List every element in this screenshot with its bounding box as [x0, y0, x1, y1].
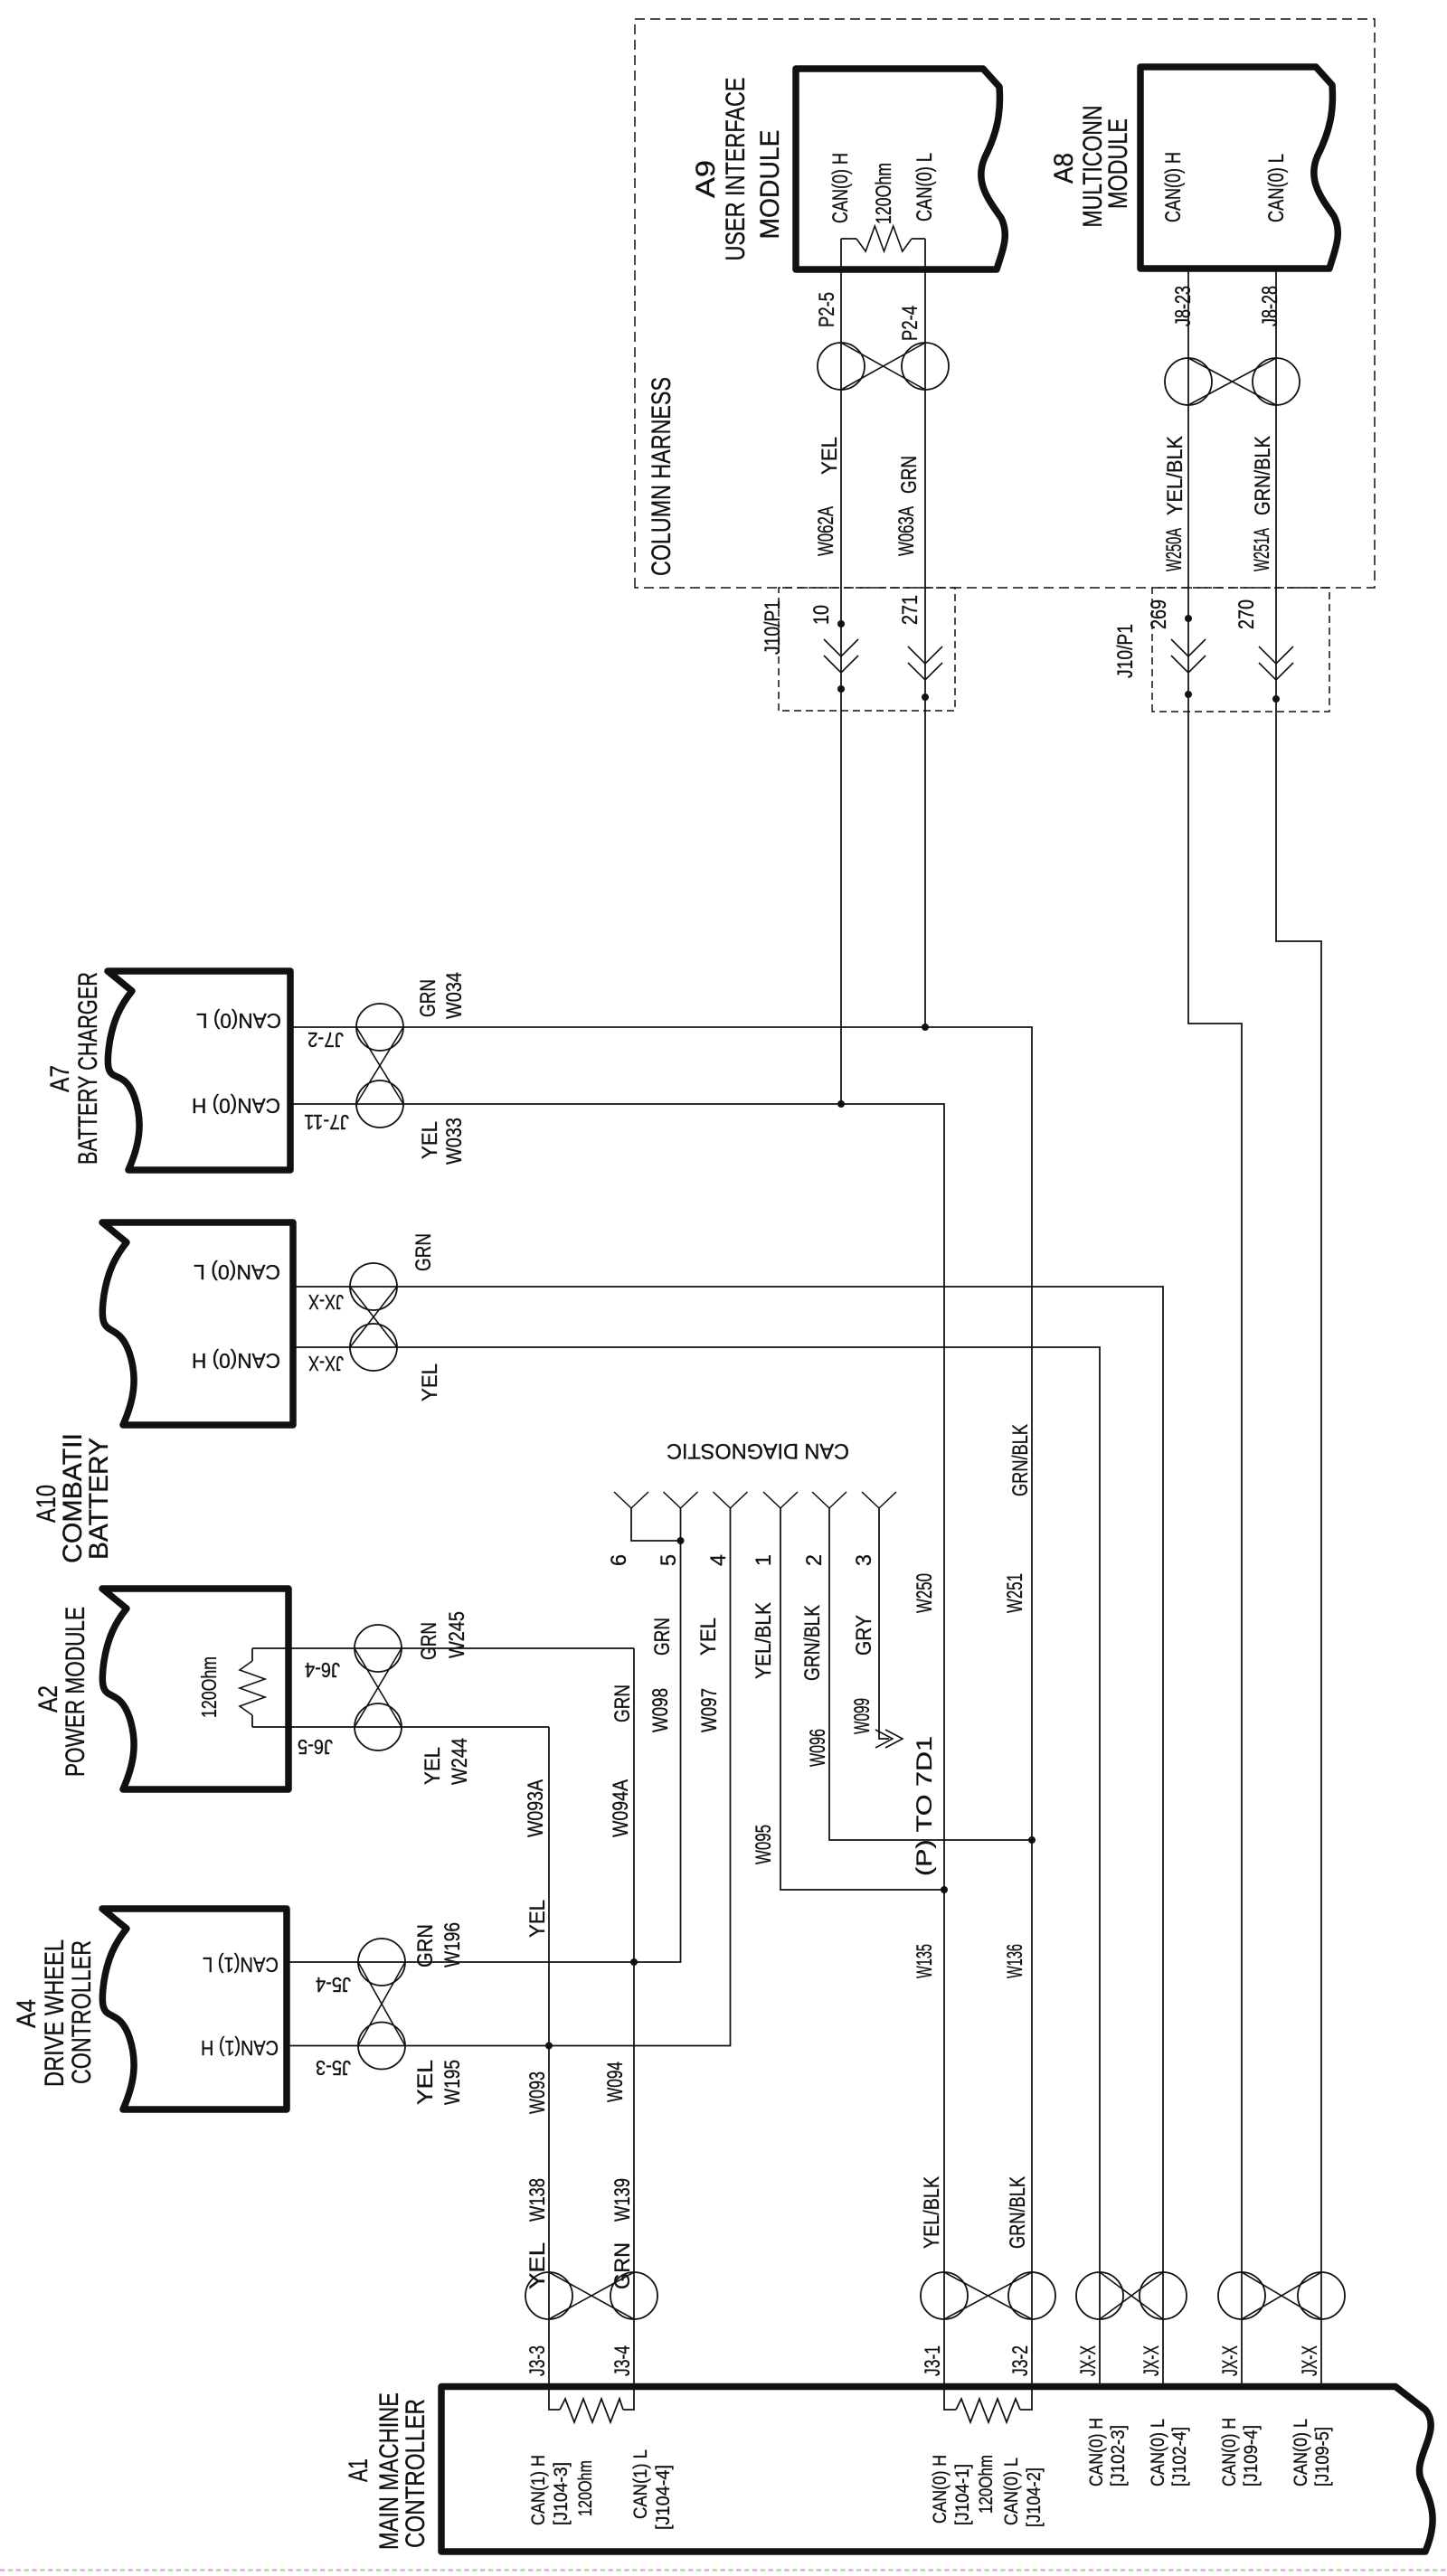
svg-text:[J102-4]: [J102-4]: [1169, 2427, 1190, 2486]
svg-text:A1: A1: [344, 2458, 374, 2482]
svg-text:J3-4: J3-4: [610, 2345, 635, 2376]
wire CAN DIAG pin1 W095 (YEL/BLK): [780, 1508, 944, 1890]
svg-text:BATTERY CHARGER: BATTERY CHARGER: [73, 972, 103, 1165]
svg-text:YEL: YEL: [418, 1121, 442, 1159]
junction dot W096 to bus J3-2: [1028, 1836, 1036, 1844]
svg-text:W251A: W251A: [1250, 528, 1274, 571]
wire CAN DIAG pin2 W096 (GRN/BLK): [829, 1508, 1032, 1840]
svg-text:CAN(0) H: CAN(0) H: [1161, 152, 1186, 222]
svg-text:W062A: W062A: [814, 506, 838, 556]
svg-text:CAN(0) L: CAN(0) L: [194, 1260, 280, 1284]
svg-text:GRN: GRN: [897, 456, 922, 494]
svg-text:GRY: GRY: [852, 1615, 876, 1656]
svg-text:W093: W093: [525, 2071, 550, 2114]
resistor 120Ohm inside A9: [841, 238, 856, 240]
svg-text:YEL: YEL: [818, 437, 842, 475]
wire A8 CAN(0) H W250A/W250 (YEL/BLK) to A1 J109-4: [1188, 269, 1242, 2387]
svg-text:269: 269: [1147, 599, 1171, 629]
svg-text:CAN(1) H: CAN(1) H: [528, 2455, 549, 2525]
svg-text:120Ohm: 120Ohm: [197, 1656, 221, 1718]
svg-text:CAN(0) L: CAN(0) L: [1148, 2419, 1168, 2486]
svg-text:W251: W251: [1003, 1573, 1027, 1613]
svg-text:CAN(0) H: CAN(0) H: [1086, 2418, 1107, 2486]
module A8 MULTICONN MODULE box: [1140, 67, 1338, 269]
svg-text:[J104-1]: [J104-1]: [952, 2464, 973, 2525]
junction dot wire 269 left: [1185, 691, 1192, 698]
junction dot wire 270 left: [1272, 695, 1280, 703]
svg-text:CAN(0) H: CAN(0) H: [930, 2455, 950, 2524]
svg-text:CAN(0) L: CAN(0) L: [1291, 2419, 1311, 2486]
svg-text:CAN(0) L: CAN(0) L: [1001, 2458, 1022, 2525]
twisted pair A9 P2-5/P2-4: [818, 343, 865, 390]
svg-text:[J104-4]: [J104-4]: [653, 2465, 674, 2530]
svg-text:[J109-4]: [J109-4]: [1241, 2425, 1262, 2486]
module A2 POWER MODULE box: [102, 1589, 288, 1789]
svg-text:W093A: W093A: [524, 1779, 548, 1837]
harness boundary COLUMN HARNESS dashed box: [635, 19, 1375, 588]
svg-text:YEL/BLK: YEL/BLK: [1163, 436, 1187, 515]
svg-text:10: 10: [809, 605, 834, 625]
svg-text:[J104-3]: [J104-3]: [551, 2462, 572, 2525]
connector J10/P1 dashed box (A9 wires): [779, 588, 955, 711]
svg-text:W098: W098: [648, 1688, 673, 1732]
junction dot pin6 to pin5 wire: [677, 1537, 685, 1544]
svg-text:JX-X: JX-X: [1076, 2345, 1101, 2376]
sheet border dashed line (pink/green): [0, 2569, 1447, 2571]
connector arrow J10/P1 wire 270: [1259, 663, 1293, 680]
svg-text:YEL: YEL: [418, 1363, 442, 1401]
svg-text:CAN(0) H: CAN(0) H: [192, 1349, 280, 1373]
twisted pair A1 J109-4/J109-5: [1218, 2272, 1265, 2319]
svg-text:W099: W099: [850, 1698, 875, 1734]
connector J10/P1 dashed box (A8 wires): [1152, 588, 1329, 712]
wire net CAN(0)L: A1 J3-2 bus to A7 J7-2 (GRN/BLK W251/W136): [290, 1027, 1032, 2387]
junction dot A4 J5-4 x bus J3-4: [630, 1958, 638, 1966]
connector CAN DIAGNOSTIC pin 3 fork: [862, 1492, 879, 1508]
svg-text:CAN(0) L: CAN(0) L: [913, 153, 937, 222]
svg-text:MODULE: MODULE: [1103, 118, 1133, 209]
svg-text:W096: W096: [806, 1729, 830, 1767]
wire A10 CAN(0) H to A1 J102-3 bus: [293, 1347, 1100, 2387]
wire A4 J5-3 drop to CAN DIAG pin4 (YEL W195/W097): [287, 1508, 731, 2046]
connector CAN DIAGNOSTIC pin 1 fork: [763, 1492, 780, 1508]
wire A4 J5-4 drop to CAN DIAG pin5 (GRN W196/W098): [287, 1508, 681, 1962]
svg-text:J10/P1: J10/P1: [1113, 624, 1138, 678]
svg-text:120Ohm: 120Ohm: [976, 2455, 997, 2514]
svg-text:CAN(0) L: CAN(0) L: [196, 1009, 281, 1033]
svg-text:A4: A4: [12, 1999, 42, 2028]
svg-text:120Ohm: 120Ohm: [575, 2460, 596, 2516]
svg-text:GRN: GRN: [610, 1684, 635, 1722]
svg-text:GRN/BLK: GRN/BLK: [1251, 436, 1275, 515]
junction dot A9 W062A to A7 drop: [837, 1100, 845, 1108]
svg-text:J5-3: J5-3: [316, 2056, 351, 2080]
junction dot A4 J5-3 x bus J3-3: [545, 2043, 553, 2050]
twisted pair A1 J3-1/J3-2: [921, 2272, 968, 2319]
twisted pair A10: [350, 1324, 397, 1371]
svg-text:CAN(1) L: CAN(1) L: [203, 1953, 279, 1977]
svg-text:JX-X: JX-X: [308, 1290, 344, 1314]
svg-text:W250: W250: [913, 1573, 937, 1613]
svg-text:W136: W136: [1003, 1944, 1027, 1978]
svg-text:J10/P1: J10/P1: [761, 600, 785, 655]
svg-text:[J102-3]: [J102-3]: [1108, 2425, 1129, 2486]
svg-text:W250A: W250A: [1162, 528, 1187, 571]
svg-text:J6-5: J6-5: [298, 1735, 333, 1759]
module A1 MAIN MACHINE CONTROLLER box: [441, 2387, 1433, 2552]
svg-text:[J109-5]: [J109-5]: [1312, 2427, 1333, 2486]
svg-text:GRN: GRN: [650, 1618, 675, 1656]
svg-text:J7-2: J7-2: [307, 1028, 344, 1052]
twisted pair A1 J3-3/J3-4: [525, 2272, 572, 2319]
svg-text:CAN DIAGNOSTIC: CAN DIAGNOSTIC: [667, 1439, 849, 1463]
connector CAN DIAGNOSTIC pin 4 fork: [714, 1492, 731, 1508]
connector arrow J10/P1 wire 271: [908, 663, 942, 680]
arrow (P) TO 7D1 double chevron: [885, 1730, 903, 1748]
module A7 BATTERY CHARGER box: [108, 971, 290, 1170]
svg-text:GRN: GRN: [416, 979, 440, 1017]
module A4 DRIVE WHEEL CONTROLLER box: [102, 1909, 287, 2109]
svg-text:GRN: GRN: [413, 1924, 438, 1967]
wire A10 CAN(0) L to A1 J102-4 bus: [293, 1287, 1163, 2387]
svg-text:W033: W033: [442, 1118, 467, 1165]
svg-text:YEL/BLK: YEL/BLK: [752, 1602, 776, 1679]
svg-text:A2: A2: [33, 1685, 63, 1713]
svg-text:(P) TO 7D1: (P) TO 7D1: [913, 1736, 937, 1876]
connector CAN DIAGNOSTIC pin 6 fork: [614, 1492, 631, 1508]
svg-text:W139: W139: [610, 2178, 635, 2222]
svg-text:CONTROLLER: CONTROLLER: [401, 2399, 430, 2548]
svg-text:CAN(1) H: CAN(1) H: [201, 2036, 279, 2060]
svg-text:JX-X: JX-X: [1140, 2345, 1164, 2376]
svg-text:A7: A7: [45, 1065, 75, 1092]
svg-text:J5-4: J5-4: [316, 1973, 351, 1996]
svg-text:W094: W094: [603, 2062, 628, 2102]
twisted pair A2 J6-5/J6-4: [355, 1703, 402, 1750]
svg-text:COLUMN HARNESS: COLUMN HARNESS: [647, 377, 676, 576]
svg-text:W195: W195: [440, 2060, 465, 2105]
junction dot wire 269 right: [1185, 615, 1192, 622]
svg-text:YEL: YEL: [525, 1900, 550, 1938]
twisted pair A8 J8-23/J8-28: [1165, 358, 1212, 405]
wire net CAN(1)L: A1 J3-4 to A2 J6-4 bus (GRN W139/W094/W094A): [633, 1648, 635, 2387]
svg-text:271: 271: [898, 595, 922, 625]
svg-text:DRIVE WHEEL: DRIVE WHEEL: [40, 1939, 70, 2087]
wire CAN DIAG pin3 W099 (GRY) to 7D1: [879, 1508, 889, 1739]
resistor 120Ohm inside A2: [252, 1726, 288, 1728]
svg-text:YEL: YEL: [696, 1618, 721, 1656]
svg-text:[J104-2]: [J104-2]: [1024, 2467, 1045, 2527]
svg-text:J3-1: J3-1: [921, 2345, 945, 2376]
twisted pair A7 J7-11/J7-2: [356, 1080, 403, 1128]
svg-text:120Ohm: 120Ohm: [872, 163, 896, 224]
wire A9 CAN(0) L W063A (GRN): [924, 239, 926, 1027]
svg-text:W196: W196: [440, 1922, 465, 1967]
resistor 120Ohm inside A1 (J104-3/J104-4): [549, 2388, 560, 2410]
junction dot wire 271 left: [922, 694, 929, 701]
wire A8 CAN(0) L W251A/W251 (GRN/BLK) to A1 J109-5: [1276, 269, 1321, 2387]
junction dot A9 W063A to A7 drop: [922, 1024, 929, 1031]
svg-text:J8-28: J8-28: [1258, 286, 1282, 326]
wire A2 J6-5 drop: [288, 1726, 549, 1728]
wire A9 CAN(0) H W062A (YEL): [840, 239, 842, 1104]
svg-text:W034: W034: [442, 972, 467, 1019]
svg-text:W245: W245: [445, 1611, 469, 1658]
svg-text:YEL: YEL: [525, 2242, 550, 2289]
resistor 120Ohm inside A1 (J104-1/J104-2): [944, 2388, 956, 2410]
svg-text:J6-4: J6-4: [305, 1658, 340, 1682]
svg-text:GRN/BLK: GRN/BLK: [800, 1605, 825, 1681]
connector arrow J10/P1 wire 10: [824, 656, 858, 673]
wire A2 J6-4 drop: [288, 1647, 634, 1649]
svg-text:USER INTERFACE: USER INTERFACE: [721, 78, 751, 261]
module A9 USER INTERFACE MODULE box: [796, 69, 1005, 269]
svg-text:6: 6: [607, 1554, 631, 1566]
module A10 COMBATII BATTERY box: [102, 1222, 293, 1425]
svg-text:A9: A9: [691, 160, 721, 198]
svg-text:270: 270: [1234, 599, 1259, 629]
svg-text:W063A: W063A: [894, 506, 919, 556]
svg-text:CAN(0) L: CAN(0) L: [1264, 154, 1289, 222]
svg-text:CAN(0) H: CAN(0) H: [1219, 2418, 1240, 2486]
svg-text:YEL/BLK: YEL/BLK: [920, 2176, 944, 2249]
svg-text:POWER MODULE: POWER MODULE: [61, 1607, 90, 1777]
svg-text:GRN: GRN: [610, 2242, 635, 2289]
svg-text:J3-2: J3-2: [1008, 2345, 1033, 2376]
wire CAN DIAG pin6 stub: [631, 1508, 681, 1541]
junction dot W095 to bus J3-1: [941, 1886, 948, 1893]
svg-text:CAN(1) L: CAN(1) L: [630, 2449, 651, 2519]
connector arrow J10/P1 wire 269: [1171, 656, 1206, 673]
svg-text:1: 1: [752, 1554, 776, 1566]
svg-text:W095: W095: [752, 1825, 776, 1864]
connector CAN DIAGNOSTIC pin 5 fork: [664, 1492, 681, 1508]
svg-text:5: 5: [657, 1554, 681, 1566]
svg-text:W135: W135: [913, 1944, 937, 1978]
svg-text:3: 3: [852, 1554, 876, 1566]
svg-text:J3-3: J3-3: [525, 2345, 550, 2376]
svg-text:P2-4: P2-4: [898, 306, 922, 341]
wire net CAN(1)H: A1 J3-3 to A2 J6-5 bus (YEL W138/W093/W093A): [548, 1727, 550, 2387]
twisted pair A1 J102-3/J102-4: [1076, 2272, 1123, 2319]
svg-text:YEL: YEL: [413, 2060, 438, 2105]
svg-text:P2-5: P2-5: [815, 292, 839, 327]
svg-text:GRN: GRN: [417, 1622, 441, 1660]
svg-text:W094A: W094A: [609, 1779, 633, 1837]
svg-text:J8-23: J8-23: [1171, 286, 1196, 326]
svg-text:YEL: YEL: [421, 1747, 445, 1785]
svg-text:CONTROLLER: CONTROLLER: [67, 1940, 97, 2084]
svg-text:CAN(0) H: CAN(0) H: [192, 1094, 280, 1118]
svg-text:GRN: GRN: [411, 1233, 436, 1271]
svg-text:GRN/BLK: GRN/BLK: [1006, 2176, 1030, 2249]
svg-text:JX-X: JX-X: [1218, 2345, 1243, 2376]
svg-text:W244: W244: [448, 1738, 472, 1785]
svg-text:GRN/BLK: GRN/BLK: [1008, 1424, 1033, 1496]
svg-text:J7-11: J7-11: [304, 1110, 349, 1134]
connector CAN DIAGNOSTIC pin 2 fork: [812, 1492, 829, 1508]
svg-text:W097: W097: [697, 1688, 722, 1732]
junction dot wire 10 right: [837, 620, 845, 627]
svg-text:2: 2: [802, 1554, 827, 1566]
svg-text:CAN(0) H: CAN(0) H: [828, 153, 853, 223]
wire net CAN(0)H: A1 J3-1 bus to A7 J7-11 (YEL/BLK W138? W250/W135): [290, 1104, 944, 2387]
svg-text:W138: W138: [525, 2178, 550, 2222]
svg-text:BATTERY: BATTERY: [84, 1438, 114, 1560]
junction dot wire 10 left: [837, 685, 845, 693]
twisted pair A4 J5-3/J5-4: [358, 2023, 405, 2070]
svg-text:A8: A8: [1049, 153, 1079, 184]
svg-text:JX-X: JX-X: [308, 1352, 344, 1375]
svg-text:MODULE: MODULE: [755, 130, 785, 240]
svg-text:JX-X: JX-X: [1298, 2345, 1322, 2376]
svg-text:4: 4: [706, 1554, 731, 1566]
